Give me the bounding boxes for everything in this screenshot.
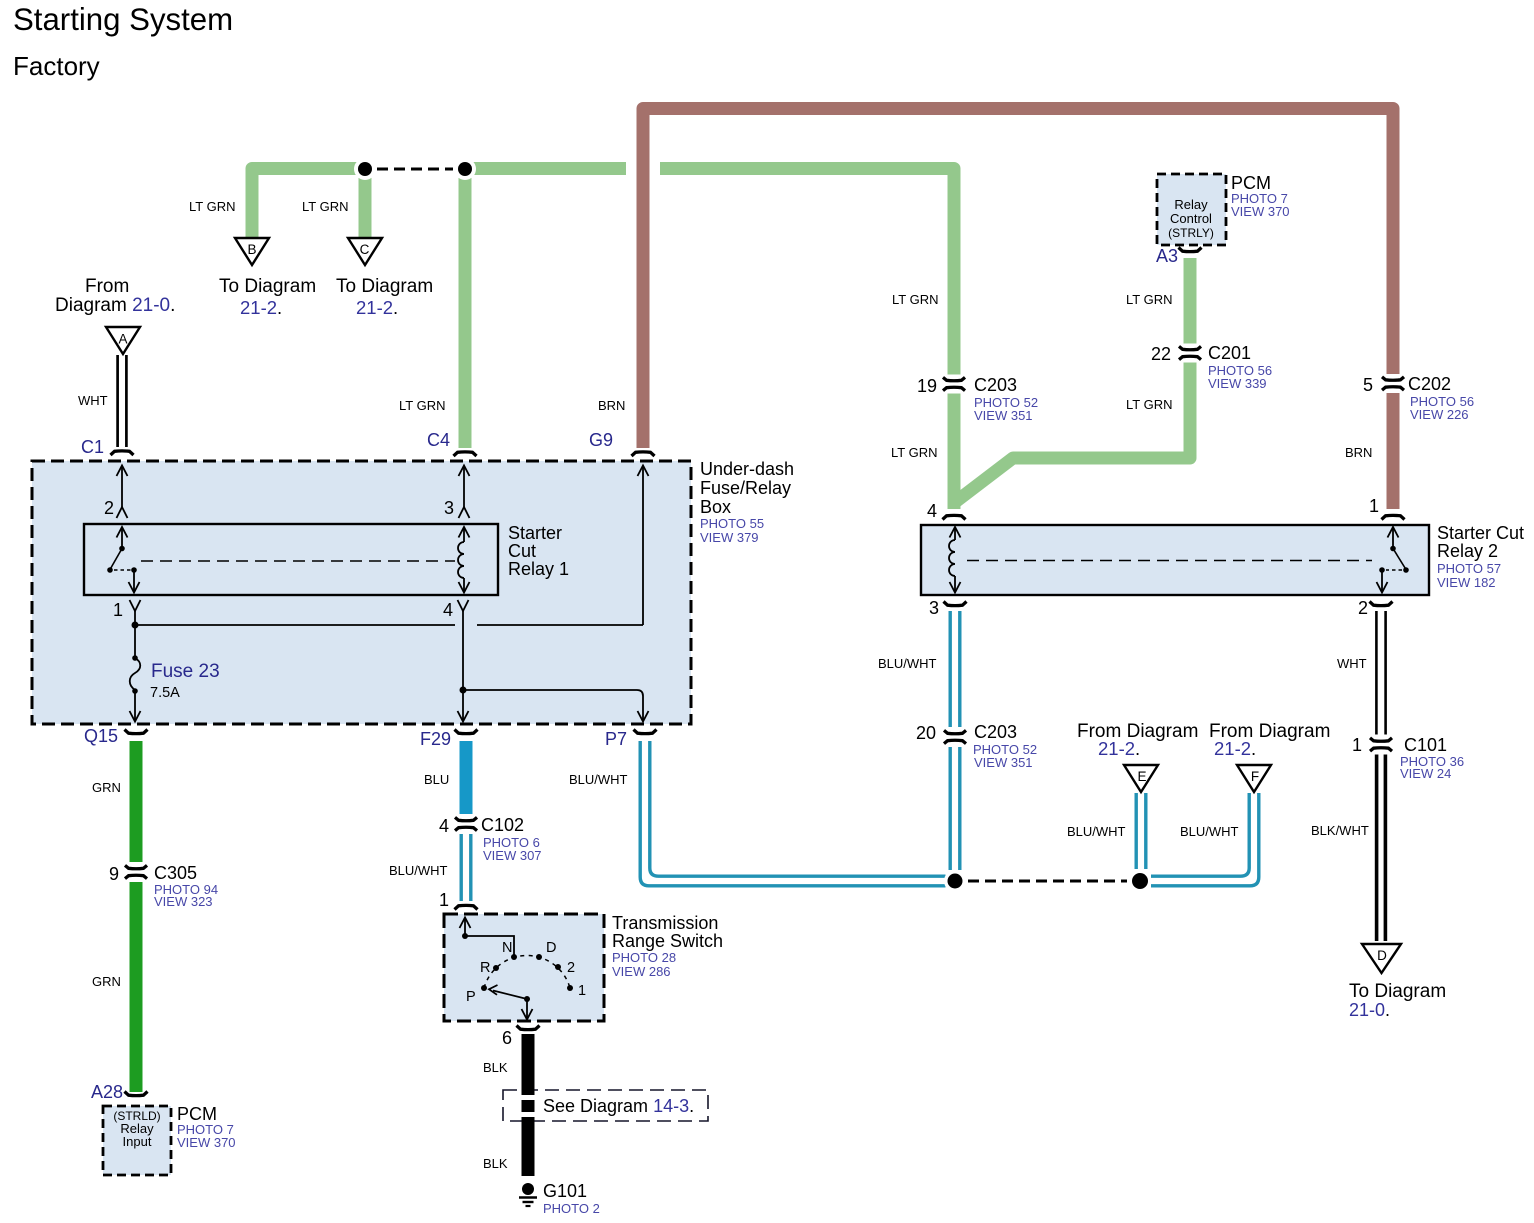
svg-text:21-2.: 21-2. (356, 297, 398, 318)
connector A3 half (1179, 248, 1202, 252)
svg-text:Q15: Q15 (84, 726, 118, 746)
arrow into box at C4 (459, 466, 470, 508)
svg-text:A: A (118, 332, 127, 347)
svg-text:BLU: BLU (424, 772, 449, 787)
svg-text:GRN: GRN (92, 974, 121, 989)
svg-text:VIEW 24: VIEW 24 (1400, 766, 1451, 781)
svg-text:C305: C305 (154, 863, 197, 883)
relay K2 dashed midline (967, 560, 1372, 562)
svg-text:E: E (1137, 769, 1146, 784)
connector relay K2 pin 1 half (1382, 515, 1405, 519)
svg-text:Starter: Starter (508, 523, 562, 543)
connector relay K2 pin 2 half (1370, 602, 1393, 606)
junction node E/F (1129, 870, 1151, 892)
svg-text:LT GRN: LT GRN (1126, 397, 1172, 412)
svg-text:Range Switch: Range Switch (612, 931, 723, 951)
TRS arrow down to pin 6 (522, 999, 533, 1020)
svg-text:PHOTO 55: PHOTO 55 (700, 516, 764, 531)
svg-text:D: D (1377, 948, 1387, 963)
svg-text:F: F (1251, 769, 1259, 784)
wire LT GRN drop to triangle C (359, 177, 372, 237)
TRS contact N (511, 954, 517, 960)
wire pin1 bus to G9 (right part, after hop) (477, 624, 643, 626)
Under-dash Fuse/Relay Box (32, 459, 794, 724)
svg-text:21-2.: 21-2. (1214, 738, 1256, 759)
relay K1 switch common dot (131, 567, 137, 573)
svg-text:9: 9 (109, 864, 119, 884)
wire fuse to Q15 arrow (130, 691, 141, 722)
relay K2 switch dashed link (1386, 569, 1402, 571)
svg-text:C102: C102 (481, 815, 524, 835)
svg-text:D: D (546, 940, 556, 956)
wire BLU from F29 down to C102 (460, 741, 473, 814)
svg-text:C1: C1 (81, 437, 104, 457)
svg-text:BLK/WHT: BLK/WHT (1311, 823, 1369, 838)
relay K2 coil (949, 540, 955, 576)
relay K1 switch top contact dot (119, 546, 125, 552)
svg-text:BLK: BLK (483, 1156, 508, 1171)
svg-text:VIEW 351: VIEW 351 (974, 755, 1033, 770)
pin 1 fork of relay K1 (130, 600, 141, 611)
Transmission Range Switch box (444, 913, 723, 1021)
TRS rotor dot (524, 996, 530, 1002)
pin 4 fork of relay K1 (458, 600, 469, 611)
svg-text:21-0.: 21-0. (1349, 1000, 1390, 1020)
svg-text:From: From (85, 276, 129, 297)
arrow into box at G9 and wire down to pin1 bus (638, 466, 649, 626)
connector relay K2 pin 3 half (944, 602, 967, 606)
connector C203 pin 20 (944, 730, 966, 743)
svg-text:PCM: PCM (177, 1104, 217, 1124)
wire WHT from relay K2 pin 2 down to C101 (1376, 611, 1385, 735)
svg-text:VIEW 323: VIEW 323 (154, 894, 213, 909)
connector C203 pin 19 (943, 377, 965, 390)
wire BRN from G9 up, across top, down to C202 (643, 109, 1393, 510)
svg-text:6: 6 (502, 1028, 512, 1048)
junction dot pin1 bus (132, 622, 139, 629)
svg-text:1: 1 (578, 983, 586, 999)
connector C102 pin 4 (455, 817, 477, 830)
connector C1 half (111, 451, 134, 455)
wire LT GRN from C201 down, left, diagonal merge into x954 (954, 363, 1190, 504)
wire BLK/WHT from C101 down to triangle D (1377, 755, 1386, 942)
fuse F23 bottom dot (132, 688, 138, 694)
connector C202 pin 5 (1382, 377, 1404, 390)
arrow into box at C1 (117, 466, 128, 508)
svg-text:LT GRN: LT GRN (891, 445, 937, 460)
relay K1 switch blade end dot (107, 567, 113, 573)
wire BLU/WHT from triangle E down to junction node (1136, 793, 1146, 869)
connector F29 half (455, 730, 478, 734)
pin 3 fork of relay K1 (459, 507, 470, 518)
wire LT GRN top bus left segment with drop to triangle B (252, 169, 1190, 510)
connector TRS pin 1 half (455, 905, 478, 909)
pin 2 fork of relay K1 (117, 507, 128, 518)
wire LT GRN x954 from C203 to relay K2 pin 4 (948, 394, 961, 510)
wire LT GRN from PCM A3 down to C201 (1184, 258, 1197, 344)
wire BLU/WHT from relay K2 pin 3 down to C203 (950, 611, 960, 870)
svg-text:Factory: Factory (13, 51, 100, 81)
relay K2 switch arrow up (1388, 527, 1399, 548)
relay K2 coil arrow up (950, 527, 961, 540)
svg-text:A3: A3 (1156, 246, 1178, 266)
junction dot on LT GRN bus (drop to C4) (454, 158, 476, 180)
wire pin 4 bus to P7 (463, 690, 643, 722)
svg-text:3: 3 (444, 498, 454, 518)
svg-text:G9: G9 (589, 430, 613, 450)
junction dot pin 4 bus (460, 687, 467, 694)
triangle D (to diagram 21-0) (1362, 944, 1401, 973)
connector P7 half (634, 730, 657, 734)
svg-text:To Diagram: To Diagram (336, 276, 433, 297)
svg-text:4: 4 (439, 816, 449, 836)
svg-text:1: 1 (1352, 735, 1362, 755)
wire WHT from triangle A down to C1 (118, 355, 127, 447)
wire BLU/WHT from P7 down and right to junction node (640, 741, 945, 886)
svg-text:BLU/WHT: BLU/WHT (1180, 824, 1239, 839)
svg-text:BLU/WHT: BLU/WHT (569, 772, 628, 787)
svg-text:1: 1 (439, 890, 449, 910)
svg-text:C4: C4 (427, 430, 450, 450)
wire LT GRN bus right segment to vertical x954 down to C203 (660, 169, 954, 375)
svg-text:VIEW 182: VIEW 182 (1437, 575, 1496, 590)
junction node P7/relay K2 pin 3 (944, 870, 966, 892)
svg-text:VIEW 379: VIEW 379 (700, 530, 759, 545)
wire relay K1 pin 4 down to F29 arrow (458, 611, 469, 722)
svg-text:PHOTO 28: PHOTO 28 (612, 950, 676, 965)
svg-text:C203: C203 (974, 375, 1017, 395)
svg-text:LT GRN: LT GRN (302, 199, 348, 214)
svg-text:To Diagram: To Diagram (1349, 981, 1446, 1002)
svg-text:To Diagram: To Diagram (219, 276, 316, 297)
relay K1 dashed midline (141, 560, 455, 562)
connector C4 half (454, 452, 477, 456)
triangle B (to diagram 21-2) (235, 238, 269, 265)
svg-text:C: C (360, 242, 370, 257)
svg-text:C201: C201 (1208, 343, 1251, 363)
relay K2 switch top contact dot (1390, 546, 1396, 552)
svg-text:2: 2 (1358, 598, 1368, 618)
svg-text:21-2.: 21-2. (1098, 738, 1140, 759)
svg-text:2: 2 (104, 498, 114, 518)
relay K1 switch arrow down to pin 1 (129, 570, 140, 593)
relay K2 switch arrow down to pin 2 (1377, 570, 1388, 593)
svg-text:PHOTO 57: PHOTO 57 (1437, 561, 1501, 576)
ground G101 symbol (519, 1183, 537, 1206)
connector A28 half (125, 1092, 148, 1096)
TRS contact 1 (567, 985, 573, 991)
svg-text:C202: C202 (1408, 374, 1451, 394)
fuse F23 top dot (132, 655, 138, 661)
svg-text:Under-dash: Under-dash (700, 459, 794, 479)
svg-text:VIEW 351: VIEW 351 (974, 408, 1033, 423)
wire LT GRN drop to C4 (459, 177, 472, 448)
wire BLK from See Diagram box down to G101 (522, 1117, 535, 1176)
svg-text:BRN: BRN (598, 398, 625, 413)
svg-text:Relay 2: Relay 2 (1437, 541, 1498, 561)
See Diagram 14-3 box (503, 1090, 708, 1121)
svg-text:5: 5 (1363, 375, 1373, 395)
relay K1 coil arrow up (459, 527, 470, 542)
svg-text:VIEW 226: VIEW 226 (1410, 407, 1469, 422)
svg-text:P: P (466, 989, 476, 1005)
connector C201 pin 22 (1179, 346, 1201, 359)
svg-text:19: 19 (917, 376, 937, 396)
triangle A (from diagram 21-0) (106, 327, 140, 354)
wire BLU/WHT from C102 down to Transmission Range Switch pin 1 (461, 834, 471, 901)
wire LT GRN bus right segment (left of BRN crossing) (472, 162, 626, 175)
svg-text:C203: C203 (974, 722, 1017, 742)
svg-text:Control: Control (1170, 211, 1212, 226)
TRS wire to N contact (465, 936, 514, 956)
fuse F23 element (130, 658, 141, 690)
svg-text:Input: Input (123, 1134, 152, 1149)
svg-text:VIEW 339: VIEW 339 (1208, 376, 1267, 391)
TRS dashed contact arc (484, 956, 570, 988)
junction dot on LT GRN bus (drop to C) (354, 158, 376, 180)
svg-text:Relay: Relay (1174, 197, 1208, 212)
svg-text:1: 1 (1369, 496, 1379, 516)
svg-text:LT GRN: LT GRN (189, 199, 235, 214)
relay K1 coil (458, 542, 464, 578)
relay K1 switch: arrow up (117, 527, 128, 548)
svg-text:LT GRN: LT GRN (399, 398, 445, 413)
wire BLU/WHT from triangle F down then left to junction node (1151, 793, 1259, 886)
wire pin1 bus to G9 (left part) (135, 624, 455, 626)
svg-text:WHT: WHT (1337, 656, 1367, 671)
svg-text:VIEW 307: VIEW 307 (483, 848, 542, 863)
connector relay K2 pin 4 half (943, 515, 966, 519)
svg-text:N: N (502, 940, 512, 956)
wire BLK segment inside See Diagram box (522, 1100, 535, 1112)
wire BLU/WHT from C203 down to junction node (949, 747, 952, 870)
svg-text:GRN: GRN (92, 780, 121, 795)
svg-text:21-2.: 21-2. (240, 297, 282, 318)
svg-text:22: 22 (1151, 344, 1171, 364)
svg-text:VIEW 286: VIEW 286 (612, 964, 671, 979)
svg-text:LT GRN: LT GRN (1126, 292, 1172, 307)
wire GRN from C305 down to A28 (130, 882, 143, 1092)
connector Q15 half (125, 730, 148, 734)
relay K1: Starter Cut Relay 1 (84, 523, 569, 595)
relay K1 switch dashed link (114, 569, 131, 571)
relay K1 coil arrow down (459, 578, 470, 593)
svg-text:BLU/WHT: BLU/WHT (878, 656, 937, 671)
svg-text:Starting System: Starting System (13, 2, 233, 37)
svg-text:PCM: PCM (1231, 173, 1271, 193)
svg-text:C101: C101 (1404, 735, 1447, 755)
svg-text:PHOTO 2: PHOTO 2 (543, 1201, 600, 1216)
svg-text:Fuse 23: Fuse 23 (151, 661, 220, 682)
svg-text:20: 20 (916, 723, 936, 743)
svg-text:LT GRN: LT GRN (892, 292, 938, 307)
svg-text:G101: G101 (543, 1181, 587, 1201)
svg-text:BLK: BLK (483, 1060, 508, 1075)
TRS contact 2 (555, 964, 561, 970)
wire BLK from Transmission Range Switch pin 6 down to See Diagram box (522, 1034, 535, 1176)
PCM (Relay Control STRLY) box top right (1157, 173, 1290, 245)
svg-text:4: 4 (927, 501, 937, 521)
svg-text:2: 2 (567, 960, 575, 976)
PCM (STRLD Relay Input) box bottom left (103, 1104, 236, 1175)
TRS contact R (493, 965, 499, 971)
svg-text:Fuse/Relay: Fuse/Relay (700, 478, 791, 498)
svg-text:3: 3 (929, 598, 939, 618)
wire GRN Q15 down to C305 (130, 741, 143, 1092)
svg-text:Transmission: Transmission (612, 913, 718, 933)
svg-text:Relay 1: Relay 1 (508, 559, 569, 579)
svg-text:Cut: Cut (508, 541, 536, 561)
connector C101 pin 1 (1370, 738, 1392, 751)
relay K2 switch common dot (1379, 567, 1385, 573)
TRS rotor arm with arrow toward P (489, 985, 527, 999)
relay K2: Starter Cut Relay 2 (921, 523, 1524, 595)
wire pin1 to fuse junction (134, 611, 136, 656)
svg-text:BLU/WHT: BLU/WHT (1067, 824, 1126, 839)
svg-text:VIEW 370: VIEW 370 (1231, 204, 1290, 219)
svg-text:BRN: BRN (1345, 445, 1372, 460)
svg-text:1: 1 (113, 600, 123, 620)
svg-text:P7: P7 (605, 729, 627, 749)
relay K2 switch blade (1393, 549, 1406, 570)
svg-text:(STRLY): (STRLY) (1168, 226, 1214, 240)
svg-text:A28: A28 (91, 1082, 123, 1102)
connector C305 pin 9 (125, 865, 147, 878)
svg-text:Box: Box (700, 497, 731, 517)
triangle C (to diagram 21-2) (348, 238, 382, 265)
svg-text:F29: F29 (420, 729, 451, 749)
svg-text:R: R (480, 960, 490, 976)
connector TRS pin 6 half (517, 1026, 540, 1030)
TRS arrow into box at pin 1 (460, 918, 471, 937)
svg-text:7.5A: 7.5A (150, 685, 180, 701)
svg-text:BLU/WHT: BLU/WHT (389, 863, 448, 878)
svg-text:VIEW 370: VIEW 370 (177, 1135, 236, 1150)
connector G9 half (632, 452, 655, 456)
relay K2 coil arrow down (950, 576, 961, 593)
TRS contact D (536, 954, 542, 960)
triangle F (from diagram 21-2) (1237, 765, 1271, 792)
relay K1 switch blade (110, 549, 122, 570)
svg-text:4: 4 (443, 600, 453, 620)
svg-text:WHT: WHT (78, 393, 108, 408)
triangle E (from diagram 21-2) (1124, 765, 1158, 792)
dashed tie between BLU/WHT junction nodes (968, 880, 1127, 883)
svg-text:B: B (247, 242, 256, 257)
TRS corner dot (462, 933, 468, 939)
relay K2 switch blade end dot (1403, 567, 1409, 573)
svg-text:Starter Cut: Starter Cut (1437, 523, 1524, 543)
dashed tie between LT GRN junction dots (377, 168, 453, 171)
TRS contact P (481, 985, 487, 991)
arrow down at P7 (638, 711, 649, 722)
svg-text:See Diagram 14-3.: See Diagram 14-3. (543, 1096, 694, 1116)
wire BRN from C202 down to relay K2 pin 1 (1387, 393, 1400, 509)
svg-text:Diagram 21-0.: Diagram 21-0. (55, 295, 175, 316)
